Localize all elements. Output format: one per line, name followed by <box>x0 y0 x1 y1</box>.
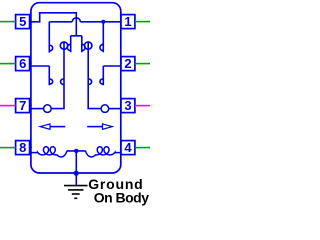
pin 2 stub wire <box>135 63 150 65</box>
svg-text:3: 3 <box>124 98 131 113</box>
pin 8 box <box>16 140 30 155</box>
armature blade right relay (pin 3) <box>88 42 101 109</box>
pin 4 box <box>121 140 135 155</box>
svg-text:8: 8 <box>19 140 26 155</box>
pin 1 stub wire <box>135 21 150 23</box>
junction dot on body bottom (case ground) <box>74 171 79 176</box>
svg-text:7: 7 <box>19 98 26 113</box>
moving contact bump row-B left relay <box>61 79 64 85</box>
wire pin8 box to body <box>30 147 32 149</box>
contact blade NC left (to pin 5) <box>67 36 70 53</box>
pin 2 box <box>121 56 135 71</box>
pin 6 stub wire <box>0 63 16 65</box>
wire pin6 net into body <box>31 65 49 67</box>
pin 8 stub wire <box>0 147 16 149</box>
wire pin1 net across top with hop over pin5 wire <box>49 18 121 22</box>
svg-text:On Body: On Body <box>94 189 150 205</box>
contact stationary row-B left relay (pin 6) <box>49 66 52 85</box>
svg-text:2: 2 <box>124 56 131 71</box>
pin 7 stub wire <box>0 105 16 107</box>
pin 5 box <box>16 14 30 29</box>
wire pin5 box to body <box>30 21 32 23</box>
contact NO stationary right relay (pin 1) <box>100 22 103 53</box>
svg-text:6: 6 <box>19 56 26 71</box>
svg-text:4: 4 <box>124 140 132 155</box>
svg-text:1: 1 <box>124 14 131 29</box>
pin 3 stub wire <box>135 105 150 107</box>
relay body outline K1 (grounded metal case) <box>31 3 121 173</box>
wire pin6 box to body <box>30 63 32 65</box>
wire pin7 box to body <box>30 105 32 107</box>
wire coil center link <box>67 150 86 152</box>
pin 5 stub wire <box>0 21 16 23</box>
actuation arrow left relay <box>40 124 65 129</box>
junction dot coil center <box>74 149 78 153</box>
moving contact circle right relay <box>85 42 92 49</box>
actuation arrow right relay <box>87 124 112 129</box>
contact NO stationary left relay (pin 1) <box>49 22 52 53</box>
coil L2 right (pin 4) <box>85 147 121 157</box>
ground symbol <box>64 186 88 199</box>
pin 1 box <box>121 14 135 29</box>
pin 3 box <box>121 98 135 113</box>
moving contact circle left relay <box>60 42 67 49</box>
pin 7 box <box>16 98 30 113</box>
contact blade NC right (to pin 5) <box>82 36 85 53</box>
moving contact bump row-B right relay <box>88 79 91 85</box>
pin 4 stub wire <box>135 147 150 149</box>
wire pin7 net to pivot <box>31 108 44 110</box>
wire pin2 net into body <box>103 65 121 67</box>
junction dot pin1 net / right NO blade <box>101 20 105 24</box>
pivot circle right relay armature <box>101 105 109 113</box>
coil L1 left (pin 8) <box>31 147 67 157</box>
wire pin5 net: body edge right, up, across top <box>31 13 82 36</box>
contact stationary row-B right relay (pin 2) <box>100 66 103 85</box>
wire pin3 net to pivot <box>109 108 121 110</box>
armature blade left relay (pin 7) <box>51 42 64 109</box>
pivot circle left relay armature <box>44 105 52 113</box>
pin 6 box <box>16 56 30 71</box>
wire coil center to ground <box>75 151 77 185</box>
svg-text:5: 5 <box>19 14 26 29</box>
